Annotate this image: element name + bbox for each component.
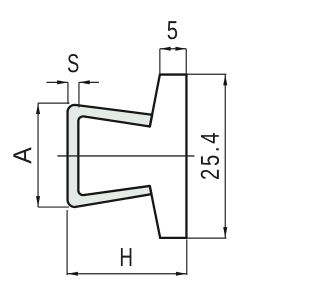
label 25.4 (rotated): [201, 133, 219, 179]
extension line right (x=78.5): [78, 82, 80, 107]
H dim line: [67, 273, 187, 275]
extension line left (x=66.65): [66, 210, 68, 275]
H left arrow (points left): [67, 272, 78, 276]
extension line bottom (y=237.7): [186, 237, 226, 239]
H right arrow (points right): [176, 272, 187, 276]
label A (rotated): [13, 147, 31, 163]
tab top edge / right edge / bottom edge: [150, 75, 187, 238]
S left arrow (points right): [57, 80, 68, 84]
label H: [121, 248, 131, 266]
25.4 bottom arrow (points down): [223, 227, 227, 238]
S dim tails: [46, 81, 98, 83]
A bottom arrow (points down): [36, 196, 40, 207]
centerline: [57, 155, 194, 157]
gray C-channel wall (profile section): [68, 105, 153, 207]
extension line top (y=102.7): [38, 102, 69, 104]
extension line top (y=73.8): [186, 73, 226, 75]
extension line bottom (y=206.6): [38, 206, 69, 208]
label 5: [168, 21, 178, 39]
5 left arrow (points left): [160, 47, 171, 51]
5 dim line: [160, 48, 186, 50]
25.4 dim line: [224, 75, 226, 238]
S right arrow (points left): [79, 80, 90, 84]
label S: [68, 54, 78, 72]
A dim line: [37, 103, 39, 207]
25.4 top arrow (points up): [223, 75, 227, 86]
extension line left (x=159.4): [159, 49, 161, 74]
extension line left (x=67.5): [67, 82, 69, 104]
extension line right (x=185.8): [185, 49, 187, 74]
A top arrow (points up): [36, 103, 40, 114]
5 right arrow (points right): [175, 47, 186, 51]
extension line right (x=186.3): [186, 239, 188, 275]
top slant: [150, 75, 160, 127]
